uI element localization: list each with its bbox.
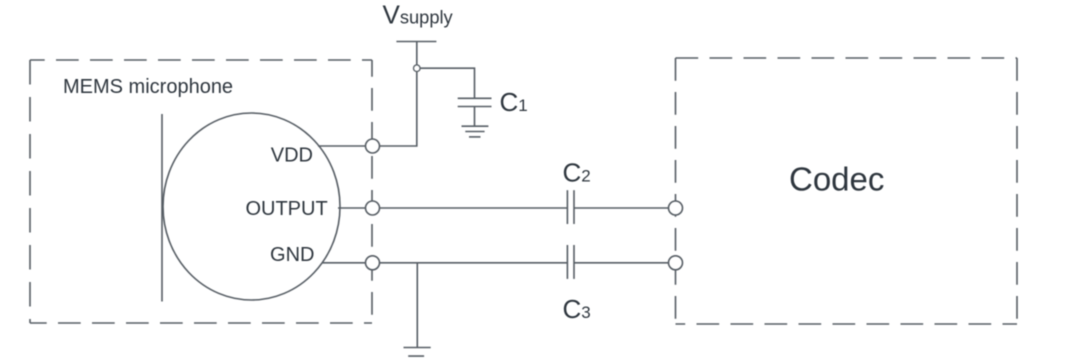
svg-text:GND: GND bbox=[270, 244, 314, 266]
svg-text:MEMS microphone: MEMS microphone bbox=[63, 76, 233, 98]
svg-text:Codec: Codec bbox=[789, 161, 884, 198]
svg-text:VDD: VDD bbox=[271, 145, 313, 167]
svg-text:OUTPUT: OUTPUT bbox=[245, 198, 327, 220]
